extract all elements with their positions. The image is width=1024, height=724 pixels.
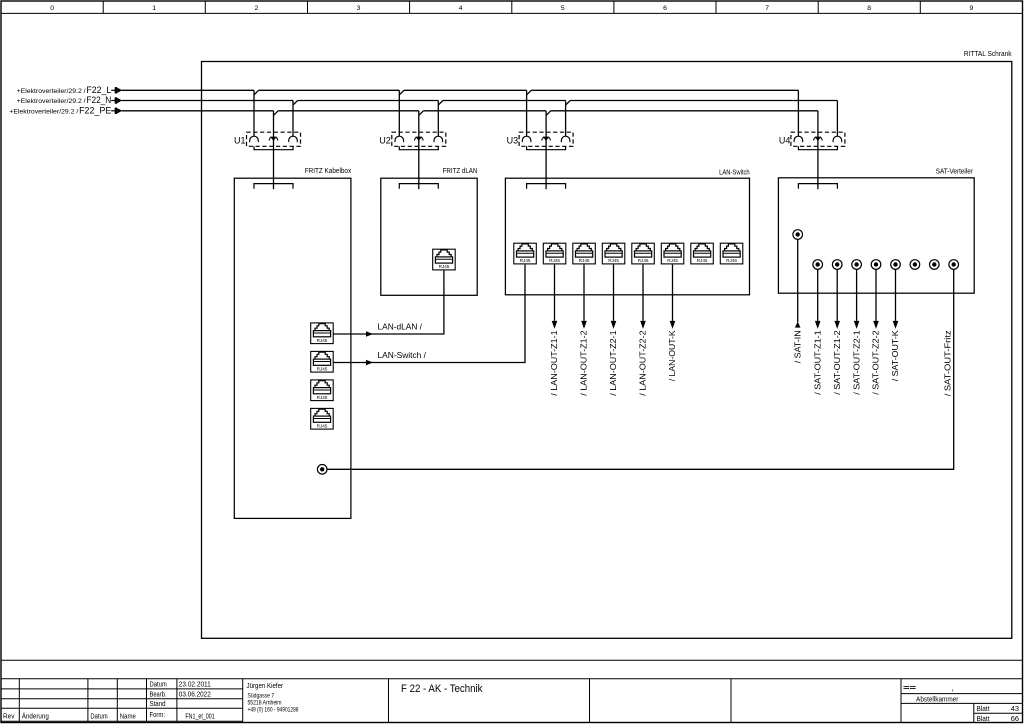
- svg-text:55218 Arnheim: 55218 Arnheim: [248, 700, 282, 706]
- svg-text:/ SAT-OUT-Z1-1: / SAT-OUT-Z1-1: [813, 330, 822, 395]
- RJ45 jack Switch P1: [514, 243, 537, 264]
- svg-text:7: 7: [765, 5, 769, 12]
- svg-text:Datum: Datum: [150, 681, 167, 688]
- coax socket SAT out 5: [891, 260, 901, 270]
- wire F22_PE: [122, 111, 818, 116]
- svg-text:Rev: Rev: [3, 713, 15, 720]
- svg-text:03.06.2022: 03.06.2022: [179, 689, 211, 698]
- svg-text:Blatt: Blatt: [977, 706, 990, 713]
- coax socket SAT out 4: [871, 260, 881, 270]
- wire LAN-OUT-Z2-2: [642, 265, 644, 321]
- wire LAN-Switch: [333, 265, 525, 363]
- column ruler band: [1, 1, 1023, 13]
- svg-text:Südgasse 7: Südgasse 7: [248, 694, 275, 700]
- svg-text:,: ,: [952, 682, 954, 692]
- svg-text:23.02.2011: 23.02.2011: [179, 679, 211, 688]
- svg-text:/ SAT-OUT-K: / SAT-OUT-K: [891, 330, 900, 382]
- svg-text:2: 2: [255, 5, 259, 12]
- RJ45 jack Switch P6: [661, 243, 684, 264]
- svg-text:Name: Name: [120, 713, 136, 720]
- RJ45 jack Kabelbox LAN1: [311, 323, 334, 344]
- wire F22_L: [122, 90, 799, 95]
- wire LAN-OUT-Z2-1: [613, 265, 615, 321]
- svg-text:3: 3: [357, 5, 361, 12]
- svg-text:LAN-Switch /: LAN-Switch /: [378, 350, 427, 360]
- svg-text:Datum: Datum: [90, 713, 107, 720]
- svg-text:9: 9: [970, 5, 974, 12]
- svg-text:+49 (0) 160 - 94901288: +49 (0) 160 - 94901288: [248, 708, 300, 714]
- RJ45 jack Switch P7: [691, 243, 714, 264]
- RJ45 jack Switch P2: [543, 243, 566, 264]
- svg-text:F22_PE: F22_PE: [79, 105, 111, 115]
- svg-text:/ LAN-OUT-Z2-1: / LAN-OUT-Z2-1: [609, 330, 618, 396]
- svg-text:Abstellkammer: Abstellkammer: [916, 695, 959, 704]
- svg-text:Form:: Form:: [150, 712, 166, 719]
- svg-text:F22_L: F22_L: [86, 85, 111, 95]
- svg-text:U1: U1: [234, 135, 246, 146]
- branch wires to plug U1: [254, 90, 293, 189]
- coax socket SAT-IN: [793, 230, 803, 240]
- coax socket SAT out 6: [910, 260, 920, 270]
- svg-text:/ LAN-OUT-Z1-1: / LAN-OUT-Z1-1: [550, 330, 559, 396]
- RJ45 jack Kabelbox LAN3: [311, 380, 334, 401]
- title block texts: [3, 681, 167, 720]
- svg-text:RITTAL Schrank: RITTAL Schrank: [964, 51, 1012, 58]
- svg-text:LAN-dLAN /: LAN-dLAN /: [378, 321, 423, 331]
- wire F22_PE source arrow: [111, 108, 122, 114]
- svg-text:SAT-Verteiler: SAT-Verteiler: [936, 169, 974, 176]
- device FRITZ Kabelbox: [234, 168, 351, 518]
- svg-text:/ LAN-OUT-Z1-2: / LAN-OUT-Z1-2: [580, 330, 589, 396]
- wire SAT-IN: [797, 239, 799, 322]
- svg-text:43: 43: [1011, 704, 1019, 713]
- coax socket Kabelbox: [317, 465, 327, 475]
- wire SAT-OUT-Z2-1: [856, 269, 858, 321]
- wire LAN-OUT-Z1-1: [554, 265, 556, 321]
- coax socket SAT out 1: [813, 260, 823, 270]
- device SAT-Verteiler: [778, 169, 974, 294]
- cabinet RITTAL Schrank: [202, 51, 1012, 639]
- svg-text:==: ==: [903, 682, 916, 692]
- svg-text:4: 4: [459, 5, 463, 12]
- svg-text:FN1_et_001: FN1_et_001: [185, 712, 214, 721]
- RJ45 jack Switch P5: [632, 243, 655, 264]
- wire LAN-dLAN: [333, 270, 444, 334]
- RJ45 jack Switch P4: [602, 243, 625, 264]
- wire SAT-OUT-Z1-2: [836, 269, 838, 321]
- svg-text:Änderung: Änderung: [22, 712, 49, 720]
- wire F22_N source arrow: [111, 97, 122, 103]
- svg-text:U4: U4: [779, 135, 791, 146]
- wire F22_L source arrow: [111, 87, 122, 93]
- plug U1: [234, 132, 301, 150]
- svg-text:Jürgen Kiefer: Jürgen Kiefer: [247, 681, 284, 690]
- plug U4: [779, 132, 845, 150]
- RJ45 jack Switch P8: [720, 243, 743, 264]
- arrow LAN-dLAN: [366, 331, 373, 336]
- branch wires to plug U4: [798, 90, 837, 189]
- svg-text:Bearb.: Bearb.: [150, 691, 167, 698]
- device FRITZ dLAN: [381, 168, 478, 295]
- svg-text:/ SAT-OUT-Z2-2: / SAT-OUT-Z2-2: [872, 330, 881, 395]
- coax socket SAT out 7: [930, 260, 940, 270]
- coax socket SAT out 2: [832, 260, 842, 270]
- svg-text:FRITZ dLAN: FRITZ dLAN: [443, 168, 478, 175]
- svg-text:6: 6: [663, 5, 667, 12]
- wire LAN-OUT-Z1-2: [583, 265, 585, 321]
- wire SAT-OUT-Z2-2: [875, 269, 877, 321]
- RJ45 jack Switch P3: [573, 243, 596, 264]
- wire SAT-OUT-Z1-1: [817, 269, 819, 321]
- branch wires to plug U3: [527, 90, 566, 189]
- RJ45 jack Kabelbox LAN2: [311, 351, 334, 372]
- svg-text:/ LAN-OUT-K: / LAN-OUT-K: [668, 330, 677, 382]
- arrow LAN-Switch: [366, 360, 373, 365]
- svg-text:66: 66: [1011, 714, 1019, 723]
- coax socket SAT out 8: [949, 260, 959, 270]
- svg-text:U3: U3: [507, 135, 519, 146]
- svg-text:FRITZ Kabelbox: FRITZ Kabelbox: [305, 168, 352, 175]
- wire SAT-OUT-Fritz: [327, 269, 954, 469]
- wire SAT-OUT-K: [895, 269, 897, 321]
- device LAN-Switch: [505, 170, 749, 295]
- svg-text:/ SAT-OUT-Z2-1: / SAT-OUT-Z2-1: [852, 330, 861, 395]
- svg-text:Stand: Stand: [150, 701, 166, 708]
- title block: [1, 660, 1023, 722]
- RJ45 jack Kabelbox LAN4: [311, 408, 334, 429]
- svg-text:F22_N: F22_N: [86, 95, 111, 105]
- svg-text:8: 8: [867, 5, 871, 12]
- svg-text:5: 5: [561, 5, 565, 12]
- RJ45 jack dLAN: [433, 249, 456, 270]
- svg-text:+Elektroverteiler/29.2 /: +Elektroverteiler/29.2 /: [17, 98, 86, 105]
- svg-text:/ SAT-IN: / SAT-IN: [793, 330, 802, 363]
- svg-text:F 22 - AK - Technik: F 22 - AK - Technik: [401, 683, 483, 695]
- wire F22_N: [122, 101, 838, 106]
- svg-text:+Elektroverteiler/29.2 /: +Elektroverteiler/29.2 /: [17, 88, 86, 95]
- svg-text:/ SAT-OUT-Fritz: / SAT-OUT-Fritz: [944, 330, 953, 396]
- plug U3: [507, 132, 574, 150]
- coax socket SAT out 3: [852, 260, 862, 270]
- svg-text:LAN-Switch: LAN-Switch: [719, 170, 750, 177]
- svg-text:/ SAT-OUT-Z1-2: / SAT-OUT-Z1-2: [833, 330, 842, 395]
- svg-text:Blatt: Blatt: [977, 716, 990, 723]
- plug U2: [379, 132, 446, 150]
- svg-text:0: 0: [50, 5, 54, 12]
- svg-text:U2: U2: [379, 135, 391, 146]
- branch wires to plug U2: [399, 90, 438, 189]
- svg-text:/ LAN-OUT-Z2-2: / LAN-OUT-Z2-2: [639, 330, 648, 396]
- svg-text:+Elektroverteiler/29.2 /: +Elektroverteiler/29.2 /: [9, 108, 78, 115]
- svg-text:1: 1: [152, 5, 156, 12]
- wire LAN-OUT-K: [672, 265, 674, 321]
